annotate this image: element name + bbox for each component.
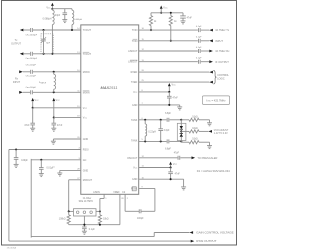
- svg-text:Cₘ=100pF: Cₘ=100pF: [26, 87, 37, 89]
- svg-text:0.068µH: 0.068µH: [43, 19, 52, 21]
- svg-text:6.8pF: 6.8pF: [165, 148, 171, 150]
- svg-text:GND: GND: [132, 178, 138, 181]
- svg-text:VCC: VCC: [56, 99, 61, 102]
- svg-text:LIMOUT: LIMOUT: [128, 61, 138, 64]
- svg-text:VCC: VCC: [163, 6, 168, 9]
- svg-text:Cₘ=1000pF: Cₘ=1000pF: [25, 58, 37, 60]
- svg-text:TXOUT: TXOUT: [83, 29, 92, 32]
- svg-text:100pF: 100pF: [21, 160, 28, 162]
- svg-text:43pF: 43pF: [55, 15, 61, 17]
- svg-text:47pF: 47pF: [174, 152, 180, 154]
- svg-text:TXEN: TXEN: [131, 81, 138, 84]
- svg-text:VCC: VCC: [83, 107, 88, 110]
- svg-text:VCC: VCC: [35, 99, 40, 102]
- svg-text:100pF: 100pF: [137, 218, 144, 220]
- svg-text:CL Filter: CL Filter: [83, 197, 92, 200]
- svg-text:10kΩ: 10kΩ: [192, 116, 198, 118]
- svg-text:Cₘ=100pF: Cₘ=100pF: [26, 65, 37, 67]
- svg-text:47nF: 47nF: [173, 98, 179, 100]
- svg-text:VCC: VCC: [172, 84, 177, 87]
- svg-text:8pF: 8pF: [46, 42, 50, 44]
- svg-text:1.4V TO 4.0V: 1.4V TO 4.0V: [214, 133, 228, 135]
- svg-text:0.1µF: 0.1µF: [196, 58, 202, 60]
- svg-text:IF OUTPUT: IF OUTPUT: [215, 60, 229, 64]
- svg-text:LIMOUT: LIMOUT: [128, 50, 138, 53]
- svg-text:0.22µH: 0.22µH: [148, 131, 156, 133]
- svg-text:RSSI OUTPUT: RSSI OUTPUT: [196, 239, 216, 243]
- svg-text:10kΩ: 10kΩ: [192, 128, 198, 130]
- svg-text:19-0505A: 19-0505A: [7, 246, 17, 249]
- svg-text:GND: GND: [83, 169, 89, 172]
- svg-text:0.1µF: 0.1µF: [89, 229, 96, 231]
- svg-text:VCC: VCC: [133, 167, 138, 170]
- svg-text:LOGIC: LOGIC: [217, 78, 225, 81]
- svg-text:0.1µF: 0.1µF: [196, 47, 202, 49]
- svg-text:VREF: VREF: [113, 191, 120, 194]
- svg-text:TXIN: TXIN: [132, 29, 138, 32]
- svg-text:3.3pF: 3.3pF: [164, 130, 170, 132]
- svg-text:TXIN: TXIN: [132, 40, 138, 43]
- svg-text:SFE 10.7MHz: SFE 10.7MHz: [79, 201, 94, 203]
- svg-text:OSCOUT: OSCOUT: [127, 157, 138, 160]
- svg-text:MIXOUT: MIXOUT: [83, 179, 93, 182]
- svg-text:6.8pF: 6.8pF: [165, 113, 171, 115]
- svg-text:LIMIN: LIMIN: [93, 191, 100, 194]
- svg-text:0.1µF: 0.1µF: [196, 26, 202, 28]
- svg-text:47nF: 47nF: [187, 17, 193, 19]
- svg-text:100kΩ: 100kΩ: [59, 219, 66, 221]
- svg-text:47nF: 47nF: [24, 125, 30, 127]
- svg-text:VCC: VCC: [133, 91, 138, 94]
- svg-text:10.7MHz Tx: 10.7MHz Tx: [215, 28, 230, 32]
- svg-text:Cₘ=1000pF: Cₘ=1000pF: [25, 34, 37, 36]
- svg-text:OUTPUT: OUTPUT: [11, 42, 21, 45]
- svg-text:GND: GND: [83, 138, 89, 141]
- svg-text:MIXIN: MIXIN: [83, 91, 90, 94]
- svg-text:GAIN CONTROL VOLTAGE: GAIN CONTROL VOLTAGE: [196, 231, 233, 235]
- svg-text:MIXIN: MIXIN: [83, 71, 90, 74]
- svg-text:RXEN: RXEN: [131, 71, 138, 74]
- svg-text:47nF: 47nF: [57, 125, 63, 127]
- svg-text:D1 = ALPHA SMV1204-034: D1 = ALPHA SMV1204-034: [197, 169, 230, 173]
- svg-text:Cₘ=100pF: Cₘ=100pF: [26, 75, 37, 77]
- svg-text:0.068µH: 0.068µH: [74, 19, 82, 21]
- svg-text:VCC: VCC: [173, 163, 178, 166]
- svg-text:GND: GND: [132, 104, 138, 107]
- svg-text:TANK: TANK: [131, 140, 138, 143]
- svg-text:VCO ADJUST: VCO ADJUST: [214, 129, 229, 132]
- svg-text:GC: GC: [83, 159, 87, 162]
- svg-text:INPUT: INPUT: [13, 81, 21, 84]
- svg-text:0.01µF*: 0.01µF*: [47, 167, 55, 169]
- svg-text:10kΩ: 10kΩ: [103, 219, 109, 221]
- svg-text:47nF: 47nF: [175, 174, 181, 176]
- svg-text:TO PRESCALER: TO PRESCALER: [197, 156, 217, 160]
- svg-text:10kΩ: 10kΩ: [192, 138, 198, 140]
- svg-text:TXOUT: TXOUT: [83, 53, 92, 56]
- svg-text:MAX2511: MAX2511: [100, 85, 117, 90]
- svg-text:10.7MHz Rx: 10.7MHz Rx: [215, 49, 230, 53]
- svg-text:TANK: TANK: [131, 119, 138, 122]
- svg-text:VCC: VCC: [83, 117, 88, 120]
- svg-text:INPUT: INPUT: [215, 39, 223, 43]
- svg-text:RSSI: RSSI: [83, 149, 89, 152]
- svg-text:0.1µF: 0.1µF: [196, 37, 202, 39]
- svg-text:VCC: VCC: [46, 7, 51, 10]
